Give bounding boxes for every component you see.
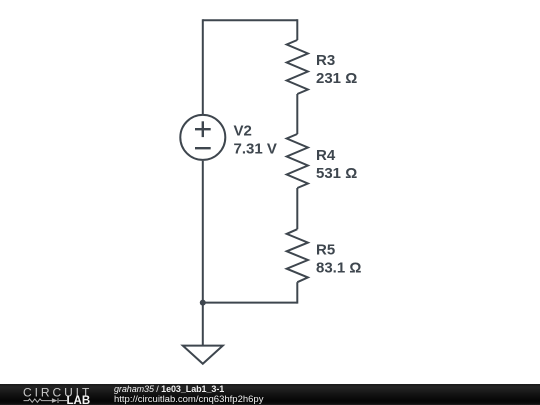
resistor R4 — [287, 134, 308, 188]
svg-text:V2: V2 — [234, 122, 252, 139]
wire left lower vertical — [202, 161, 204, 346]
wire between R4 and R5 — [296, 188, 298, 229]
wire left upper vertical — [202, 19, 204, 114]
node junction dot — [200, 300, 206, 306]
svg-text:531 Ω: 531 Ω — [316, 165, 357, 182]
wire right top lead — [296, 19, 298, 40]
voltage source plus sign — [195, 121, 211, 137]
CircuitLab logo — [0, 384, 110, 405]
voltage source V2 circle — [180, 115, 225, 160]
svg-text:R5: R5 — [316, 241, 335, 258]
wire top horizontal — [203, 19, 297, 21]
svg-text:231 Ω: 231 Ω — [316, 70, 357, 87]
svg-text:R3: R3 — [316, 52, 335, 69]
svg-text:83.1 Ω: 83.1 Ω — [316, 259, 361, 276]
svg-text:LAB: LAB — [67, 395, 91, 405]
voltage source minus sign — [195, 147, 211, 149]
svg-text:7.31 V: 7.31 V — [234, 140, 277, 157]
ground — [183, 346, 223, 364]
footer credit text — [114, 384, 263, 405]
wire bottom horizontal — [203, 302, 297, 304]
resistor R3 — [287, 40, 308, 94]
wire R5 bottom lead — [296, 282, 298, 303]
wire between R3 and R4 — [296, 94, 298, 134]
resistor R5 — [287, 229, 308, 282]
svg-text:R4: R4 — [316, 147, 336, 164]
